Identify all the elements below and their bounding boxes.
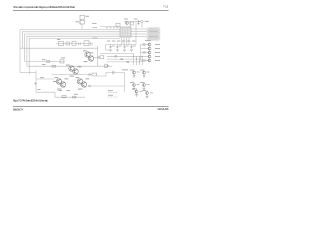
label B+ <box>38 88 41 91</box>
label Q0703 value <box>78 88 82 91</box>
label Q1005 <box>143 89 146 92</box>
wire ladder rung 5 <box>141 60 149 62</box>
fuse F0801 <box>73 96 76 98</box>
wire ic pins down 4 <box>128 37 130 45</box>
wire ic pin right 2 <box>131 31 147 33</box>
label net y61 <box>42 58 45 61</box>
wire x136 vertical <box>135 22 137 45</box>
label Q1001 <box>140 70 150 73</box>
wire ic pin right 3 <box>131 33 147 35</box>
label F0801 <box>74 93 78 96</box>
label D0210 <box>134 18 137 21</box>
wire loop top step <box>97 73 125 77</box>
label Q0901 <box>155 47 160 50</box>
transistor Q0904 <box>148 59 151 62</box>
transistor Q0701 <box>60 82 65 87</box>
label R0801 value <box>67 89 71 92</box>
wire matrix v4 <box>142 56 144 65</box>
pin number labels above bus <box>93 26 119 29</box>
wire ic pin right 1 <box>131 28 147 30</box>
capacitor C0402 <box>79 42 80 45</box>
wire ladder rung 3 <box>141 52 149 54</box>
label Q1000 <box>130 70 140 73</box>
wire audio rail y74.5 <box>52 74 92 76</box>
wire top y26 <box>100 26 118 28</box>
label A+ <box>57 38 60 41</box>
header rule <box>13 10 169 12</box>
microphone MK1 <box>104 64 108 68</box>
svg-text:Figure 7-2. PM-Series 800 MHz: Figure 7-2. PM-Series 800 MHz Schematic <box>13 98 49 102</box>
label Q0701 value <box>57 88 61 91</box>
svg-text:March 21, 2006: March 21, 2006 <box>158 108 170 111</box>
wire label line 2 <box>108 96 118 98</box>
transistor Q0310 <box>69 66 74 71</box>
transistor Q0311 <box>73 69 78 74</box>
label Q0702 <box>76 76 80 79</box>
resistor R0904 <box>143 60 145 61</box>
wire bus L2 <box>22 32 120 48</box>
wire ladder rail left <box>141 45 149 61</box>
label C0101 value <box>76 20 79 23</box>
transistor Q0403 <box>85 52 90 57</box>
schematic wires <box>20 20 147 98</box>
label row above caps <box>107 40 135 43</box>
junction dots matrix <box>133 56 143 63</box>
resistor R0503 tick <box>127 61 129 62</box>
transistor Q1005 <box>146 92 154 98</box>
wire ic top stub <box>129 22 131 28</box>
wire ladder rung 1 <box>141 44 149 46</box>
wire matrix h4 <box>107 61 143 63</box>
label Q0404 value <box>84 60 88 63</box>
grid transistor top stubs <box>134 69 147 91</box>
wire matrix v3 <box>139 56 141 65</box>
capacitor C0612 <box>113 71 115 74</box>
resistor R0302 <box>52 65 56 67</box>
footer rule <box>13 106 169 108</box>
capacitor C0403 <box>91 42 92 45</box>
label Q1003 <box>140 82 150 85</box>
wire cap left L <box>106 45 110 51</box>
label R0301 <box>61 56 65 59</box>
capacitor C0304 <box>130 45 136 52</box>
label ladder title <box>145 39 151 42</box>
wire accessory row feed <box>56 43 91 45</box>
wire matrix v1 <box>133 54 135 66</box>
wire matrix h3 <box>107 58 143 60</box>
wire ic pins down 3 <box>126 37 128 45</box>
label net y66 <box>42 63 45 66</box>
resistor R0300 <box>47 61 50 63</box>
capacitor C0302 <box>116 45 122 52</box>
resistor R0410 <box>98 56 104 59</box>
footer document number <box>13 109 24 111</box>
label Q1004 <box>132 88 135 91</box>
label Q0311 <box>78 65 82 68</box>
transistor Q1004 <box>135 90 143 96</box>
transistor Q0901 <box>148 47 151 50</box>
regulator U0100 <box>80 15 84 19</box>
wire y58 stub <box>94 57 99 59</box>
wire branch y72 <box>20 72 36 74</box>
wire top link <box>124 21 141 23</box>
svg-text:6881096C74: 6881096C74 <box>13 109 24 111</box>
label Q0311 value <box>70 75 74 78</box>
wire bus L3 <box>25 34 120 62</box>
transistor Q0702 <box>77 79 82 84</box>
page number <box>163 5 169 8</box>
label mic line 2 <box>108 94 113 97</box>
label Q0404 <box>90 51 94 54</box>
net flag J2-3 <box>147 33 160 35</box>
wire ic pin right 4 <box>131 36 147 38</box>
transistor Q1003 <box>143 84 146 90</box>
resistor R0230 <box>116 23 120 26</box>
inductor L0401 <box>72 41 76 45</box>
wire ic pins down 1 <box>121 37 123 45</box>
capacitor C0303 <box>123 45 129 52</box>
label mic line 1 <box>108 89 113 92</box>
diode D0210 <box>137 20 140 25</box>
transistor Q0700 <box>56 79 61 84</box>
label Q0403 <box>83 49 87 52</box>
capacitor C0301 <box>109 45 115 52</box>
wire x97 vertical <box>97 46 99 66</box>
wire conn drop <box>141 23 143 28</box>
net flag J2-2 <box>147 30 160 32</box>
transistor Q1002 <box>133 84 136 90</box>
IC U0201 shaded block <box>120 27 131 37</box>
label U0501 <box>122 68 128 71</box>
label P1 <box>145 20 149 23</box>
capacitor C0101 <box>80 20 84 24</box>
label Q0902 <box>155 51 160 54</box>
label Q0903 <box>155 55 160 58</box>
label SW B+ <box>40 76 44 79</box>
transistor Q0903 <box>148 55 151 58</box>
transistor Q0900 <box>148 43 151 46</box>
figure caption <box>13 98 49 102</box>
wire vertical x36 <box>35 71 37 93</box>
svg-text:Schematics, Component Location: Schematics, Component Location Diagrams,… <box>13 5 75 9</box>
transistor Q1000 <box>133 71 136 77</box>
net flag J2-1 <box>147 28 160 30</box>
resistor R0231 <box>131 22 134 25</box>
header title text <box>13 5 75 9</box>
resistor R0902 <box>143 52 145 53</box>
wire bus L1 <box>20 30 120 73</box>
wire label line 1 <box>108 92 118 94</box>
label Q0904 <box>155 59 160 62</box>
resistor R0502 tick <box>121 59 123 60</box>
wire matrix v2 <box>136 56 138 65</box>
relay K0401 <box>59 41 64 46</box>
wire reg drop <box>81 24 83 30</box>
label Q0900 <box>155 43 160 46</box>
transistor Q1001 <box>143 71 146 77</box>
wire loop bottom rail <box>88 85 125 87</box>
net flag J2-5 <box>147 38 160 40</box>
transistor Q0902 <box>148 51 151 54</box>
wire loop right vertical <box>124 73 126 93</box>
resistor R0402 <box>66 42 69 45</box>
resistor R0610 <box>89 73 97 76</box>
wire branch y61 <box>25 61 64 63</box>
battery plus mark <box>34 82 37 85</box>
wire ladder rung 2 <box>141 48 149 50</box>
label R0801 <box>59 89 63 92</box>
label Q0310 <box>66 64 70 67</box>
wire A+ feed <box>20 47 98 49</box>
transistor Q0703 <box>81 82 86 87</box>
label D0401 value <box>93 37 98 40</box>
wire matrix h2 <box>107 55 143 57</box>
wire bus L5 <box>29 38 120 74</box>
wire ic pins down 2 <box>123 37 125 45</box>
label Q0703 <box>86 77 90 80</box>
resistor R0900 <box>143 44 145 45</box>
transistor Q0210 <box>126 22 129 25</box>
net flag J2-4 <box>147 35 160 37</box>
wire ladder rung 4 <box>141 56 149 58</box>
label Q1002 <box>130 82 140 85</box>
footer date <box>158 108 170 111</box>
wire branch y66 <box>27 65 112 67</box>
diode D0401 <box>84 41 89 46</box>
speaker SP1 circle <box>89 85 91 87</box>
svg-text:7-13: 7-13 <box>163 5 169 8</box>
label Q0700 <box>55 76 59 79</box>
transistor Q0404 <box>88 56 93 61</box>
wire reg left <box>80 20 82 25</box>
resistor R0501 tick <box>115 56 117 57</box>
wire cap rail <box>106 44 136 46</box>
label Q0700 left <box>53 80 56 83</box>
wire y79 <box>36 78 54 80</box>
label VCC5 <box>92 22 97 25</box>
resistor R0801 <box>62 95 66 97</box>
wire y92 step <box>36 92 85 97</box>
label Q0701 <box>65 77 69 80</box>
connector pin P1 <box>141 20 143 22</box>
label U0100 value <box>86 15 89 18</box>
wire matrix h1 <box>100 53 134 55</box>
label Q0210 <box>124 18 128 21</box>
resistor R0301 <box>60 60 64 63</box>
wire bus L4 <box>27 36 120 66</box>
